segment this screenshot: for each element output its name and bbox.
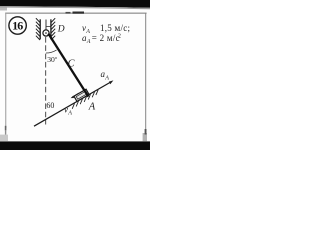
svg-text:D: D <box>57 24 65 34</box>
svg-text:2: 2 <box>118 34 121 40</box>
svg-text:16: 16 <box>12 18 23 32</box>
svg-text:60: 60 <box>46 101 54 110</box>
svg-text:C: C <box>68 59 75 70</box>
svg-text:A: A <box>86 39 91 45</box>
svg-text:A: A <box>104 75 109 81</box>
svg-text:= 2 м/с: = 2 м/с <box>92 33 120 43</box>
svg-text:30°: 30° <box>47 55 58 64</box>
svg-text:1,5 м/с;: 1,5 м/с; <box>100 23 130 33</box>
svg-text:A: A <box>67 110 72 116</box>
svg-text:A: A <box>88 101 96 112</box>
